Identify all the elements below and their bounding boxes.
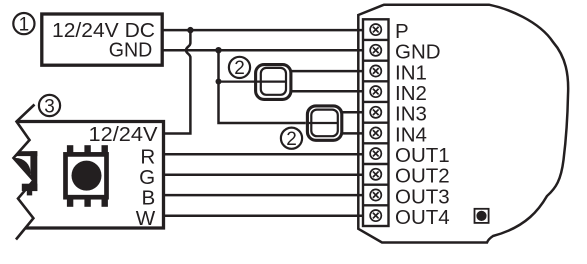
svg-text:IN4: IN4: [395, 123, 427, 146]
screw terminal IN4: [370, 127, 381, 138]
svg-text:2: 2: [286, 129, 297, 150]
svg-text:P: P: [395, 20, 409, 43]
svg-text:R: R: [140, 145, 155, 168]
callout 2 (button S2): [281, 128, 302, 150]
wire V+ drop to LED strip with crossover hop: [162, 30, 190, 133]
screw terminal IN2: [370, 86, 381, 97]
callout 3 (LED strip): [39, 95, 60, 117]
screw terminal IN3: [370, 107, 381, 118]
svg-text:3: 3: [44, 96, 55, 117]
svg-text:OUT3: OUT3: [395, 185, 450, 208]
actuator line button S2: [307, 122, 338, 124]
screw terminal OUT3: [370, 189, 381, 200]
wire W to OUT4: [165, 214, 364, 217]
LED strip module box: [17, 122, 164, 229]
screw terminal GND: [370, 45, 381, 56]
status LED indicator: [475, 209, 489, 223]
callout 1 (power supply): [13, 13, 34, 35]
svg-text:OUT4: OUT4: [395, 206, 450, 229]
svg-text:W: W: [136, 207, 156, 230]
svg-text:IN3: IN3: [395, 103, 427, 126]
wire button S2 to IN3: [341, 111, 364, 114]
wire G to OUT2: [165, 173, 364, 176]
svg-text:IN1: IN1: [395, 61, 427, 84]
screw terminal OUT2: [370, 169, 381, 180]
push button S2: [307, 106, 341, 140]
wire GND drop to button S2: [219, 50, 306, 123]
wire GND to terminal GND: [162, 49, 364, 52]
wire B to OUT3: [165, 194, 364, 197]
screw terminal OUT1: [370, 148, 381, 159]
junction GND: [215, 47, 221, 53]
svg-text:2: 2: [234, 58, 245, 79]
svg-text:OUT1: OUT1: [395, 144, 450, 167]
svg-text:IN2: IN2: [395, 82, 427, 105]
svg-text:OUT2: OUT2: [395, 165, 450, 188]
wire button S1 to IN2: [290, 90, 364, 93]
junction button S1 branch: [216, 79, 222, 85]
screw terminal OUT4: [370, 210, 381, 221]
svg-text:GND: GND: [109, 38, 153, 61]
screw terminal IN1: [370, 65, 381, 76]
svg-text:1: 1: [19, 14, 30, 35]
wire button S1 to IN1: [290, 70, 364, 73]
svg-text:B: B: [141, 186, 155, 209]
svg-text:12/24V: 12/24V: [89, 123, 158, 146]
wire to button S1 / actuator line: [219, 80, 288, 82]
push button S1: [256, 65, 291, 100]
junction V+: [187, 27, 193, 33]
svg-text:GND: GND: [395, 41, 441, 64]
wire R to OUT1: [165, 153, 364, 156]
terminal block TB1: [363, 19, 389, 226]
power supply box PS1: [42, 14, 162, 65]
torn edge zigzag: [14, 105, 35, 240]
wire button S2 to IN4: [341, 132, 364, 135]
screw terminal P: [370, 24, 381, 35]
LED package D1: [66, 145, 108, 207]
controller module U1 outline: [358, 5, 568, 243]
callout 2 (button S1): [229, 57, 250, 79]
wire V+ to terminal P: [162, 29, 364, 32]
